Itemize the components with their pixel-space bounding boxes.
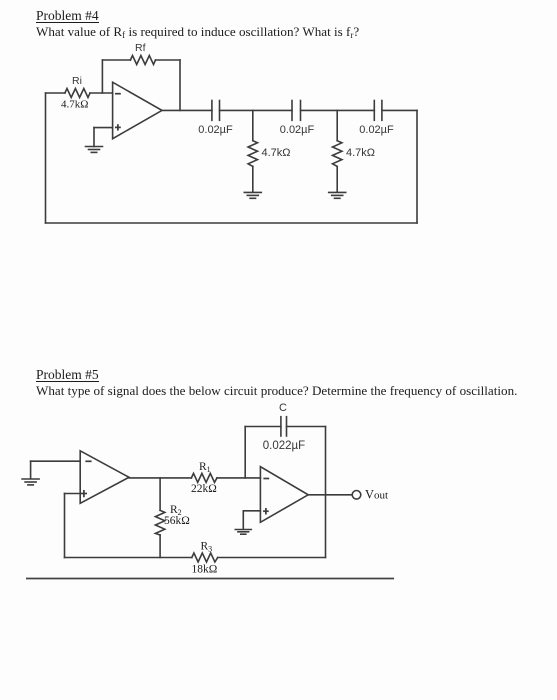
- resistor Ri: [46, 89, 113, 98]
- wire U2 plus input feedback: [65, 494, 81, 558]
- svg-text:Vout: Vout: [365, 488, 388, 502]
- heading Problem #5: [36, 367, 99, 382]
- capacitor C: [281, 417, 287, 436]
- wire capacitor branch left vertical: [244, 427, 246, 478]
- resistor Rf: [102, 56, 180, 65]
- wire Rf left vertical: [101, 60, 103, 93]
- wire bottom feedback: [65, 557, 192, 559]
- resistor R1: [191, 473, 260, 482]
- ground ladder 1: [244, 192, 261, 198]
- wire Rf right vertical: [179, 60, 181, 110]
- svg-text:Ri: Ri: [72, 75, 82, 87]
- wire U2 minus input: [31, 461, 81, 478]
- capacitor C3: [374, 101, 382, 121]
- svg-text:22kΩ: 22kΩ: [191, 483, 217, 495]
- svg-text:4.7kΩ: 4.7kΩ: [61, 99, 88, 111]
- svg-text:4.7kΩ: 4.7kΩ: [262, 147, 291, 159]
- page rule: [26, 578, 394, 580]
- wire capacitor branch top left: [245, 426, 281, 428]
- svg-text:56kΩ: 56kΩ: [164, 515, 190, 527]
- wire C2 to node2: [301, 109, 375, 111]
- svg-text:C: C: [279, 402, 287, 414]
- wire U1 plus input: [94, 128, 113, 147]
- op-amp U2: [80, 451, 129, 504]
- wire U1 output: [162, 109, 212, 111]
- svg-text:18kΩ: 18kΩ: [192, 563, 218, 575]
- wire feedback right vertical: [325, 427, 327, 558]
- ground ladder 2: [329, 192, 346, 198]
- heading Problem #4: [36, 8, 99, 23]
- svg-text:0.02µF: 0.02µF: [280, 124, 315, 136]
- wire C3 to right corner: [382, 109, 417, 111]
- svg-text:R1: R1: [199, 461, 211, 474]
- ground U3 plus input: [235, 530, 251, 535]
- op-amp U1: [113, 82, 162, 139]
- terminal Vout: [352, 491, 361, 500]
- wire left loop vertical: [45, 93, 47, 223]
- svg-text:4.7kΩ: 4.7kΩ: [346, 147, 375, 159]
- wire U3 output: [308, 494, 352, 496]
- svg-text:Problem #4: Problem #4: [36, 8, 99, 23]
- svg-text:R3: R3: [201, 540, 213, 553]
- resistor R ladder 1: [248, 110, 257, 192]
- wire C1 to node1: [220, 109, 293, 111]
- svg-text:Problem #5: Problem #5: [36, 367, 99, 382]
- capacitor C2: [292, 101, 301, 121]
- wire bottom loop: [46, 222, 418, 224]
- ground U2 minus input: [22, 479, 39, 485]
- svg-text:0.022µF: 0.022µF: [263, 440, 305, 452]
- wire U3 plus input: [243, 511, 260, 530]
- resistor R2: [155, 478, 164, 558]
- svg-text:0.02µF: 0.02µF: [359, 124, 394, 136]
- ground U1 plus input: [86, 147, 103, 153]
- svg-text:What type of signal does the b: What type of signal does the below circu…: [36, 383, 517, 398]
- wire right loop vertical: [416, 110, 418, 223]
- svg-text:Rf: Rf: [135, 42, 146, 54]
- resistor R3: [192, 553, 326, 562]
- resistor R ladder 2: [333, 110, 342, 192]
- op-amp U3: [260, 467, 308, 523]
- wire capacitor branch top right: [287, 426, 326, 428]
- capacitor C1: [212, 101, 220, 121]
- svg-text:What value of Rf is required t: What value of Rf is required to induce o…: [36, 24, 359, 40]
- wire U2 output: [129, 477, 191, 479]
- svg-text:0.02µF: 0.02µF: [198, 124, 233, 136]
